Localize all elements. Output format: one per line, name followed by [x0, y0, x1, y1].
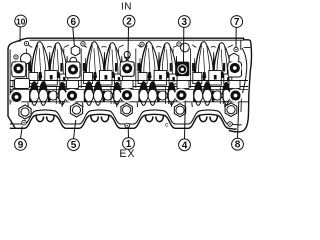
cam cap column 2 — [66, 46, 81, 89]
cam lobe group cylinder 3 — [136, 42, 178, 122]
head bolt 4 (black) — [175, 88, 189, 102]
right end inner contour — [241, 40, 251, 112]
mid band line — [10, 86, 248, 88]
callout circle 8 — [232, 138, 244, 150]
cam cap column 1 — [12, 53, 31, 88]
spark plug tower 5 — [225, 103, 237, 117]
head bolt 5 (black) — [65, 89, 79, 103]
head bolt 8 (black) — [229, 89, 243, 103]
callout circle 6 — [67, 16, 79, 28]
callout circle 3 — [178, 16, 190, 28]
svg-text:EX: EX — [119, 148, 135, 160]
bottom flange bolt hole 3 — [228, 122, 233, 127]
svg-text:10: 10 — [16, 17, 26, 27]
top flange bolt hole 2 — [81, 42, 85, 46]
bottom flange inner scallop — [10, 110, 242, 125]
callout circle 5 — [68, 139, 80, 151]
leader line callout 3 — [183, 28, 185, 64]
leader line callout 2 — [127, 27, 130, 57]
cam lobe group cylinder 2 — [81, 42, 123, 122]
exhaust camshaft lower line — [10, 101, 248, 103]
top flange bolt hole 4 — [177, 42, 181, 46]
svg-text:8: 8 — [235, 140, 241, 151]
cam lobe group cylinder 1 — [27, 42, 69, 122]
head bolt 7 (black) — [228, 61, 242, 75]
cam cap column 4 — [176, 43, 190, 88]
left end camshaft stub — [11, 91, 15, 102]
cylinder head outline top and sides — [8, 38, 252, 132]
spark plug tower 2 — [70, 103, 82, 117]
leader line callout 8 — [238, 102, 239, 139]
leader line callout 9 — [21, 126, 23, 138]
head bolt 10 (black) — [12, 62, 26, 76]
top flange bolt hole 3 — [140, 42, 144, 46]
leader line callout 5 — [74, 120, 76, 139]
callout circle 4 — [179, 139, 191, 151]
top flange contour — [28, 45, 233, 48]
callout circle 9 — [15, 139, 27, 151]
head bolt 2 (black) — [120, 62, 134, 76]
top flange bolt hole 6 — [14, 55, 18, 59]
svg-text:5: 5 — [71, 140, 77, 151]
left edge outer line — [8, 50, 15, 128]
left edge inner line — [9, 50, 11, 105]
svg-text:4: 4 — [182, 140, 188, 151]
cam lobe group cylinder 4 — [191, 42, 233, 122]
head bolt 9 (black) — [10, 90, 24, 104]
exhaust camshaft upper line — [10, 89, 248, 91]
upper camshaft line — [10, 80, 248, 82]
callout circle 10 — [15, 15, 27, 27]
top flange bolt hole 1 — [24, 41, 28, 45]
callout circle 7 — [231, 16, 243, 28]
svg-text:6: 6 — [71, 17, 77, 28]
svg-text:7: 7 — [234, 17, 240, 28]
spark plug tower 4 — [174, 104, 185, 117]
leader line callout 10 — [19, 27, 21, 42]
callout circle 2 — [123, 15, 135, 27]
spark plug tower 3 — [121, 103, 132, 116]
top flange bolt hole 5 — [234, 47, 238, 51]
leader line callout 6 — [73, 27, 75, 47]
bottom flange bolt hole 2 — [125, 123, 130, 128]
svg-text:IN: IN — [121, 2, 132, 13]
cam cap column 3 — [120, 51, 134, 88]
head bolt 6 (black) — [66, 63, 80, 77]
callout circle 1 — [123, 138, 135, 150]
svg-text:3: 3 — [182, 17, 188, 28]
bottom flange bolt hole 1 — [22, 120, 27, 125]
bolt 10 lower housing — [15, 79, 30, 89]
leader line callout 1 — [127, 127, 129, 138]
head bolt 3 (black) — [175, 62, 189, 76]
svg-text:9: 9 — [18, 140, 24, 151]
svg-text:2: 2 — [126, 17, 132, 28]
spark plug tower 1 — [19, 105, 31, 119]
head bolt 1 (black) — [120, 88, 134, 102]
leader line callout 4 — [184, 101, 187, 140]
bottom flange outer scallop — [10, 114, 237, 129]
leader line callout 7 — [235, 28, 237, 48]
top edge inner line — [30, 39, 244, 41]
cam cap column 5 — [228, 53, 242, 88]
